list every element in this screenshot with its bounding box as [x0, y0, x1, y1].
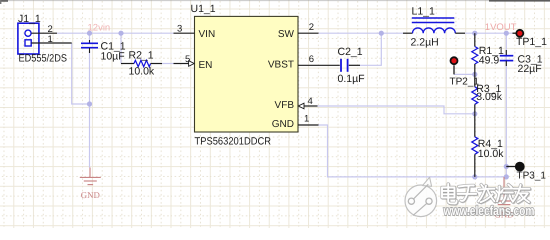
pin 3 VIN [174, 23, 195, 34]
ground symbol GND (left) [80, 168, 101, 200]
svg-text:TP3_1: TP3_1 [517, 171, 547, 182]
resistor R4 10.0k [472, 114, 504, 177]
pin 4 VFB with input arrow [298, 96, 317, 109]
junction node VOUT rail at R1 [472, 31, 477, 36]
test point TP2_1 [450, 57, 480, 87]
svg-text:VFB: VFB [275, 100, 295, 111]
net label 1VOUT [485, 22, 517, 33]
IC U1_1 TPS563201DDCR [191, 3, 299, 148]
wire 12vin rail from J1.2 to VIN [57, 32, 174, 34]
svg-text:10µF: 10µF [101, 51, 125, 63]
resistor R1 49.9 [472, 33, 504, 74]
watermark url www.elecfans.com [443, 203, 535, 218]
junction node bottom rail at R4 [472, 174, 477, 179]
junction node SW rail at C2 riser [379, 31, 384, 36]
svg-text:49.9: 49.9 [479, 55, 500, 67]
pin 1 GND [298, 114, 319, 125]
svg-text:1VOUT: 1VOUT [485, 22, 517, 33]
wire R2 to EN [162, 63, 174, 65]
capacitor C3 22uF [500, 50, 543, 75]
pin 1 of J1 [31, 34, 71, 45]
ground symbol GND (right, under watermark) [494, 177, 514, 220]
svg-text:12vin: 12vin [88, 23, 111, 34]
resistor R3 3.09k [472, 74, 503, 113]
wire GND pin to bottom rail [319, 125, 507, 177]
svg-text:4: 4 [308, 96, 313, 107]
svg-text:3.09k: 3.09k [476, 91, 502, 103]
pin 2 SW [298, 22, 319, 33]
svg-text:22µF: 22µF [518, 63, 542, 75]
svg-text:0.1µF: 0.1µF [338, 73, 365, 85]
junction node bottom rail at C3 column [504, 174, 509, 179]
svg-text:TP1_1: TP1_1 [516, 36, 547, 48]
resistor R2 10.0k [121, 50, 162, 78]
wire TP2 to R1/R3 junction [454, 73, 475, 75]
junction node on 12vin at R2 branch [118, 31, 123, 36]
junction node R3/R4 with VFB [472, 111, 477, 116]
wire VFB to divider junction [318, 106, 475, 114]
svg-text:VIN: VIN [199, 29, 216, 40]
svg-text:TPS563201DDCR: TPS563201DDCR [195, 135, 272, 147]
wire SW to L1 [319, 32, 404, 34]
svg-text:1: 1 [48, 34, 53, 45]
junction node TP3 tap on C3 column [504, 164, 509, 169]
test point TP3_1 [506, 162, 546, 181]
junction node VOUT rail at C3 [504, 31, 509, 36]
wire branch to C1 top [89, 33, 91, 40]
svg-text:J1_1: J1_1 [18, 13, 41, 25]
test point TP1_1 [513, 30, 548, 48]
connector J1_1 [18, 13, 67, 64]
svg-text:U1_1: U1_1 [191, 3, 216, 15]
wire J1.1 down and right to C1 bottom junction [72, 43, 90, 104]
wire C2 riser to SW rail [360, 33, 381, 65]
svg-text:1: 1 [304, 114, 309, 125]
inductor L1 2.2uH [403, 6, 465, 49]
wire C1 bottom to ground junction [89, 51, 91, 168]
svg-text:2.2µH: 2.2µH [411, 36, 439, 48]
svg-text:GND: GND [81, 190, 100, 200]
wire L1 to 1VOUT rail / TP1 [465, 32, 513, 34]
svg-text:VBST: VBST [268, 60, 294, 71]
svg-text:ED555/2DS: ED555/2DS [19, 52, 68, 64]
svg-text:C2_1: C2_1 [338, 46, 363, 58]
pin 6 VBST [298, 54, 319, 65]
svg-text:10.0k: 10.0k [129, 66, 155, 78]
junction node C1 bottom / GND [87, 101, 92, 106]
junction node R1/R3 with TP2 [472, 72, 477, 77]
svg-text:6: 6 [309, 54, 314, 65]
wire C3 column [505, 33, 507, 177]
capacitor C1 10uF [81, 40, 126, 63]
pin 2 of J1 [31, 24, 57, 35]
net label 12vin [88, 23, 111, 34]
capacitor C2 0.1uF [319, 46, 365, 85]
svg-text:EN: EN [199, 60, 213, 71]
svg-text:10.0k: 10.0k [478, 148, 504, 160]
svg-text:SW: SW [278, 29, 295, 40]
pin 5 EN with input arrow [174, 54, 195, 67]
svg-text:5: 5 [185, 54, 190, 65]
svg-text:L1_1: L1_1 [412, 6, 436, 18]
wire branch down to R2 row [120, 33, 122, 63]
svg-text:GND: GND [272, 119, 294, 130]
watermark chinese brand text (dianzi fashaoyou) [442, 184, 530, 204]
svg-text:www.elecfans.com: www.elecfans.com [443, 203, 535, 218]
svg-text:2: 2 [309, 22, 314, 33]
svg-text:3: 3 [177, 23, 182, 34]
sheet top edge artifact [0, 0, 550, 4]
junction node on 12vin at C1 [87, 31, 92, 36]
svg-text:R2_1: R2_1 [129, 50, 154, 62]
watermark logo (elecfans) [405, 177, 437, 216]
